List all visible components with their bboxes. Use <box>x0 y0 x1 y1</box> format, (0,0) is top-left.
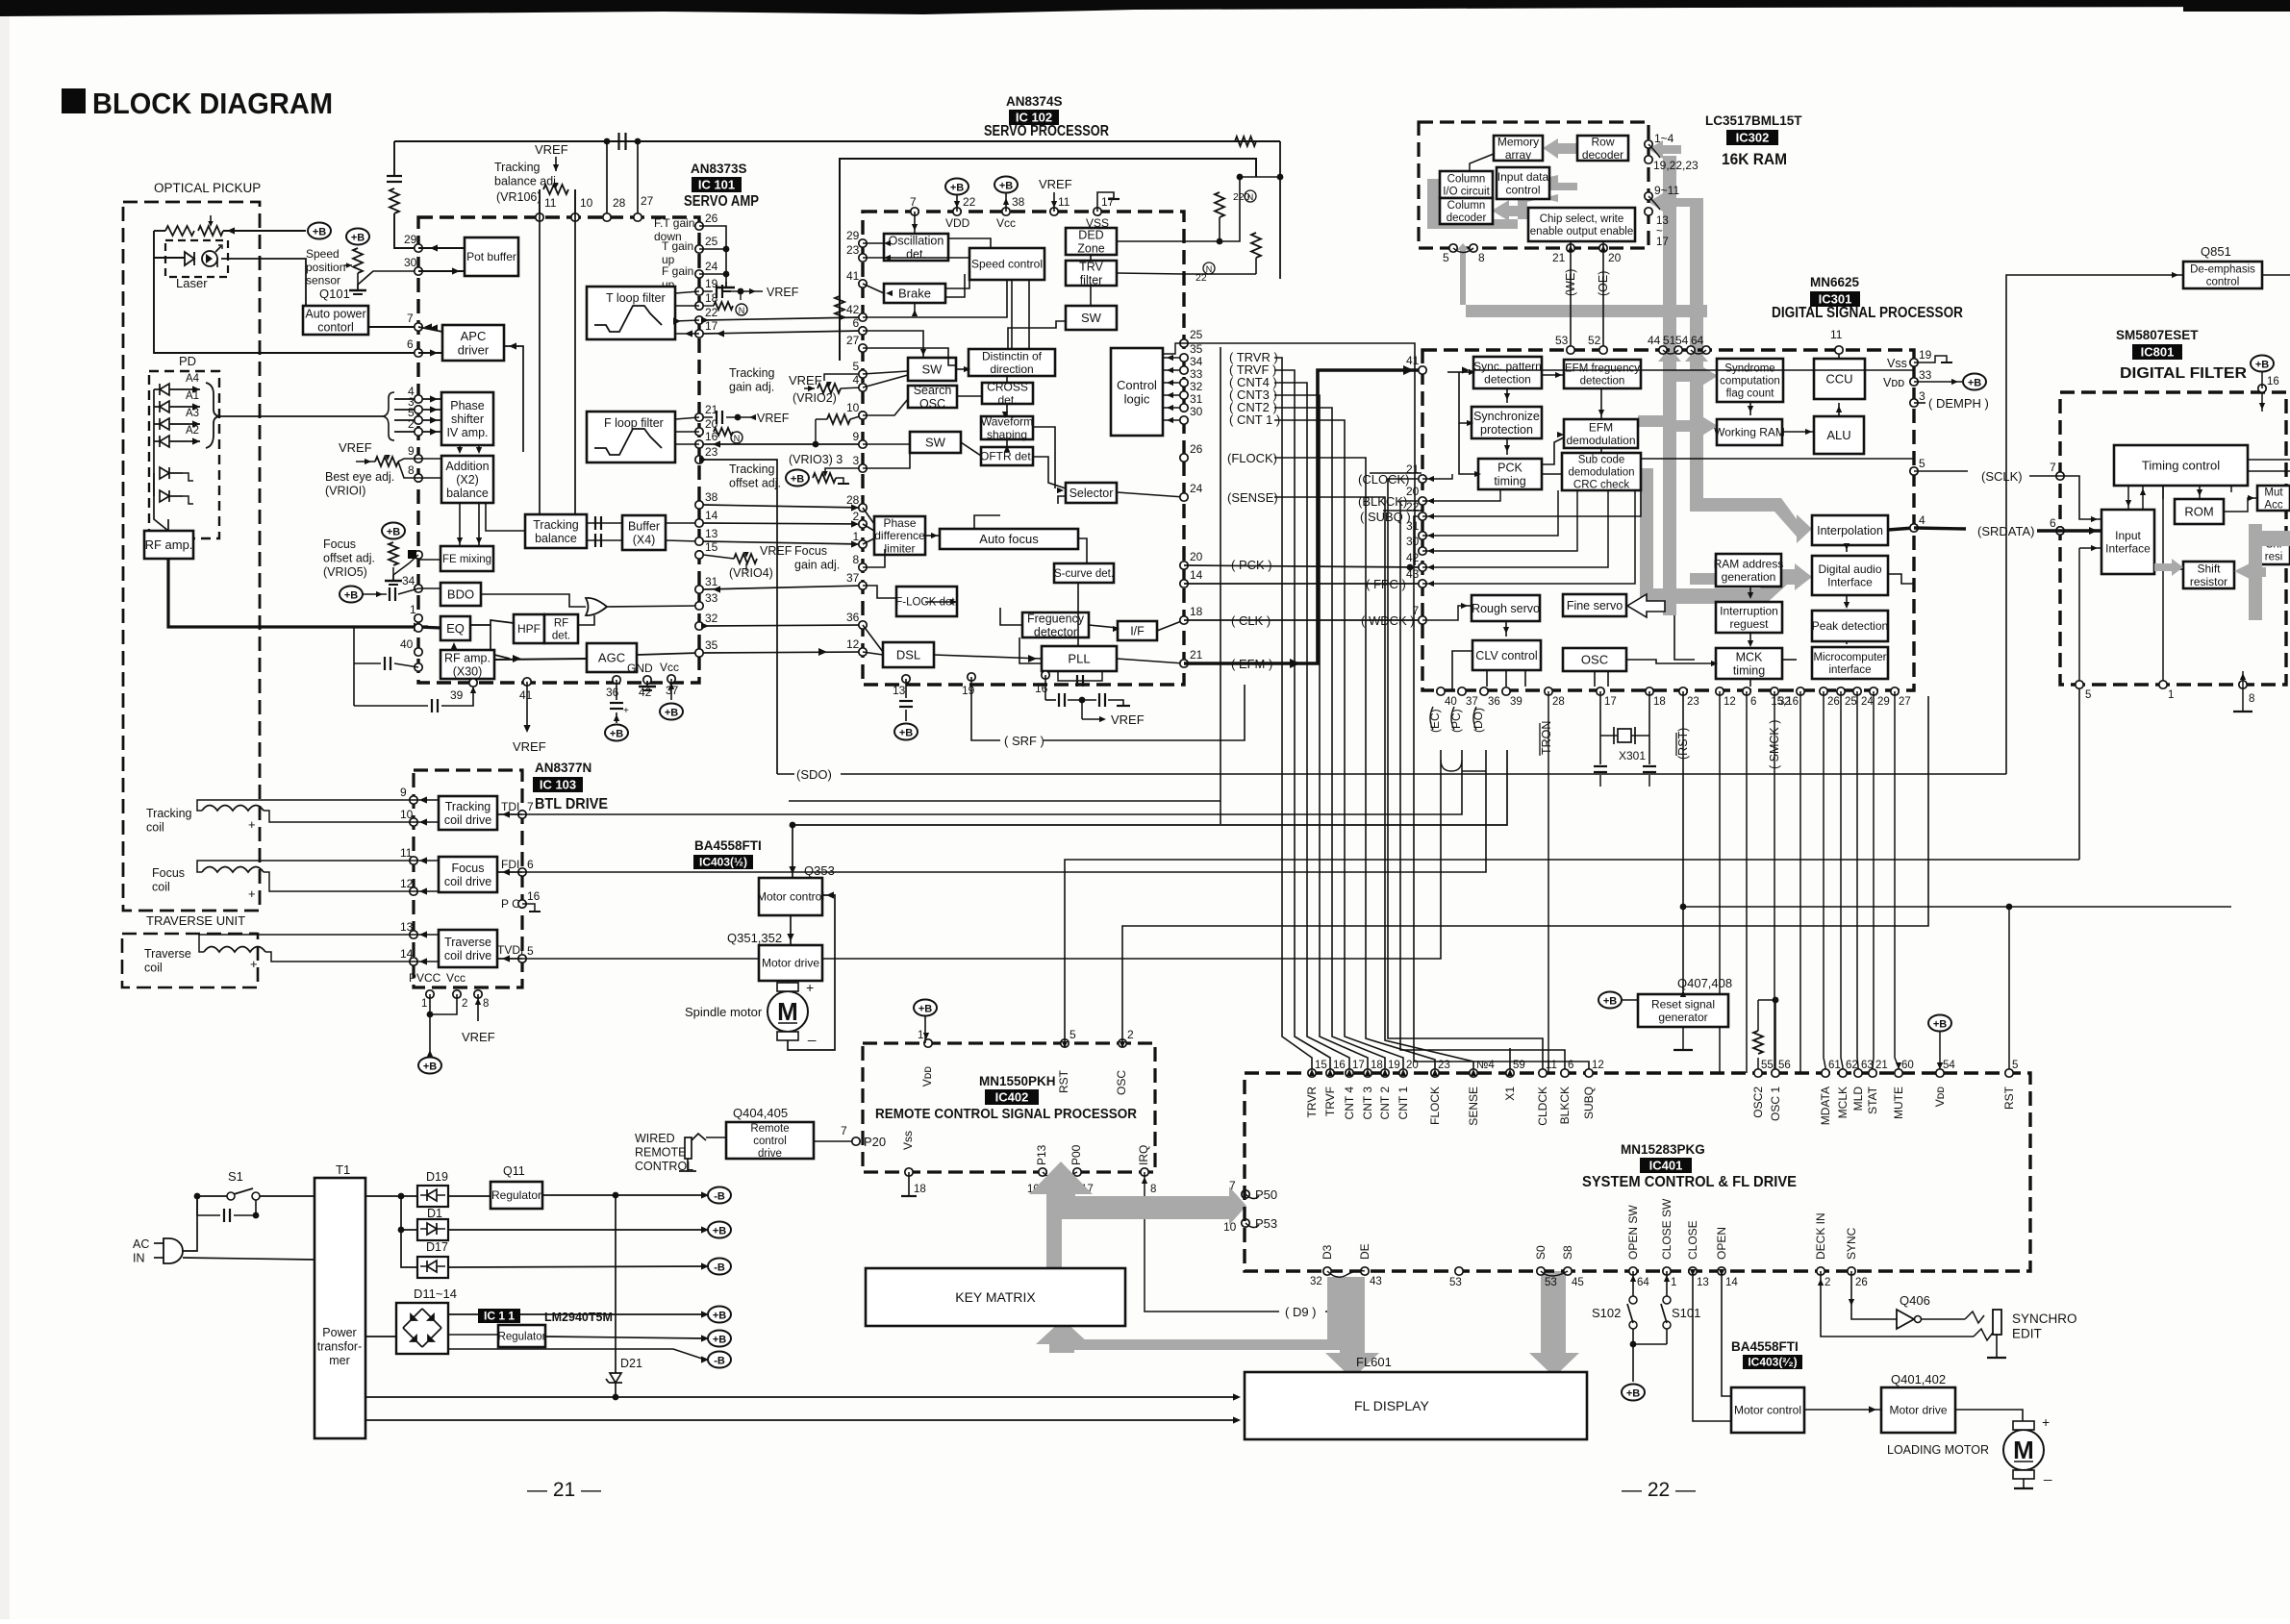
svg-text:22: 22 <box>705 306 718 319</box>
svg-text:PCK: PCK <box>1497 461 1522 474</box>
svg-text:VREF: VREF <box>535 142 568 157</box>
svg-text:SW: SW <box>925 436 946 450</box>
block sub code <box>1562 453 1641 490</box>
svg-text:12: 12 <box>1724 696 1736 708</box>
svg-text:Speed control: Speed control <box>971 258 1043 271</box>
svg-text:(SCLK): (SCLK) <box>1981 469 2023 484</box>
svg-text:7: 7 <box>1413 604 1420 617</box>
svg-text:Focus: Focus <box>451 862 484 875</box>
ram right pins <box>1645 140 1652 215</box>
ram wire dots <box>1217 174 1284 245</box>
svg-text:PD: PD <box>179 354 196 368</box>
svg-text:2: 2 <box>462 998 467 1010</box>
filter input3 v <box>2078 548 2080 685</box>
label focus gain adj <box>794 544 840 571</box>
wires near pins39 40 <box>1184 159 1280 274</box>
svg-text:60: 60 <box>1901 1060 1914 1071</box>
sclk wire2 <box>2029 475 2060 477</box>
svg-text:FDI: FDI <box>501 858 519 871</box>
svg-text:32: 32 <box>1310 1276 1322 1287</box>
-B out6 <box>708 1352 731 1368</box>
osc to x301 <box>1774 926 1776 1000</box>
svg-text:Laser: Laser <box>176 276 208 290</box>
svg-text:Remote: Remote <box>750 1123 789 1135</box>
addition to FE mixing <box>460 503 479 546</box>
gray mini arrow ii to shift <box>2154 559 2183 576</box>
svg-text:MN6625: MN6625 <box>1810 275 1860 289</box>
jack to rcd <box>706 1137 726 1138</box>
block control logic <box>1111 348 1163 436</box>
svg-text:1: 1 <box>1671 1277 1676 1288</box>
transformer text <box>317 1326 363 1367</box>
svg-text:MN15283PKG: MN15283PKG <box>1621 1142 1705 1157</box>
block IF <box>1118 621 1157 640</box>
gain pins tie <box>699 226 726 282</box>
svg-text:CLOSE SW: CLOSE SW <box>1660 1198 1673 1260</box>
pin40 wire <box>394 663 418 667</box>
svg-text:N: N <box>739 306 745 315</box>
svg-text:det.: det. <box>906 247 926 261</box>
svg-text:( SRF ): ( SRF ) <box>1004 734 1044 748</box>
svg-text:33: 33 <box>1190 367 1203 381</box>
svg-text:N: N <box>734 434 741 443</box>
svg-text:I/O circuit: I/O circuit <box>1443 186 1490 197</box>
svg-text:15: 15 <box>705 540 718 554</box>
gray branch to working RAM <box>1676 415 1718 437</box>
efm thick line <box>1184 370 1422 663</box>
svg-text:+B: +B <box>791 474 804 486</box>
pin P20 <box>852 1137 860 1145</box>
svg-text:+: + <box>248 887 256 901</box>
svg-text:Auto focus: Auto focus <box>979 532 1039 546</box>
gray bus syscontrol to FL <box>1529 1271 1579 1377</box>
block mck timing <box>1716 648 1782 679</box>
N circle 20 <box>731 432 742 443</box>
AC plug <box>164 1238 183 1263</box>
svg-text:11: 11 <box>544 196 557 210</box>
svg-text:Q406: Q406 <box>1900 1293 1930 1308</box>
cap39 up <box>353 663 355 706</box>
optical pickup unit outline <box>123 202 260 911</box>
block oscillation det <box>884 234 948 261</box>
svg-text:CNT 2: CNT 2 <box>1378 1087 1392 1120</box>
block Phase shifter <box>441 392 493 445</box>
svg-text:+B: +B <box>919 1004 932 1015</box>
res10 wire <box>850 415 863 419</box>
svg-text:Power: Power <box>322 1326 356 1339</box>
synchro jack squiggles <box>1965 1312 1993 1340</box>
svg-text:31: 31 <box>1406 519 1420 533</box>
svg-text:array: array <box>1505 148 1531 162</box>
res10 left <box>816 418 827 420</box>
svg-text:1: 1 <box>410 603 416 616</box>
arrows into FE <box>457 537 482 544</box>
svg-text:+B: +B <box>713 1311 726 1322</box>
svg-text:Brake: Brake <box>898 287 931 301</box>
block waveform <box>981 414 1033 440</box>
svg-text:flag count: flag count <box>1726 387 1775 399</box>
svg-text:IN: IN <box>133 1251 145 1264</box>
resetgen arrow <box>1680 990 1686 997</box>
spindle motor symbol <box>768 991 808 1032</box>
t coil minus wire <box>197 800 414 811</box>
svg-text:55: 55 <box>1761 1060 1774 1071</box>
svg-text:MCK: MCK <box>1736 650 1763 663</box>
svg-text:10: 10 <box>400 808 414 821</box>
svg-text:enable output enable: enable output enable <box>1530 226 1633 237</box>
rst vert 2089 <box>2008 907 2010 1073</box>
block efm freq <box>1564 360 1641 388</box>
gray branch EFM demod to bus A <box>1638 415 1663 427</box>
svg-text:+B: +B <box>610 729 623 740</box>
svg-text:12: 12 <box>400 877 414 890</box>
eq to hpf <box>470 620 514 625</box>
dsp left pin labels <box>1406 354 1420 617</box>
or gate <box>586 598 607 615</box>
vref41 wire <box>526 682 528 731</box>
mid long 833 <box>789 800 1220 802</box>
vref drop arrow <box>1051 201 1057 208</box>
ic402 osc up <box>1122 696 1928 1043</box>
svg-text:45: 45 <box>1572 1277 1584 1288</box>
svg-text:2: 2 <box>408 417 415 431</box>
cap branch2 <box>234 1200 256 1215</box>
svg-text:generation: generation <box>1722 570 1776 584</box>
svg-text:Interruption: Interruption <box>1720 604 1778 617</box>
pin25 long right <box>1184 343 1415 565</box>
svg-text:P50: P50 <box>1255 1187 1277 1202</box>
svg-text:CLOSE: CLOSE <box>1686 1220 1699 1260</box>
btl pwr wires <box>430 994 478 1053</box>
label speed position sensor <box>306 247 345 287</box>
pd bundle wire <box>219 415 383 417</box>
svg-text:S0: S0 <box>1534 1245 1548 1260</box>
block DED zone <box>1066 228 1117 255</box>
svg-text:Column: Column <box>1447 200 1486 212</box>
svg-text:30: 30 <box>1406 535 1420 548</box>
svg-text:29: 29 <box>404 233 417 246</box>
block distinctin <box>969 349 1055 376</box>
srdata wire <box>1914 528 1966 529</box>
label tracking gain adj <box>729 366 775 393</box>
block APC driver <box>442 325 504 361</box>
svg-text:RF amp.: RF amp. <box>145 537 193 552</box>
block shift resis right <box>2257 536 2290 564</box>
sync arrow <box>1849 1299 1854 1306</box>
svg-text:_: _ <box>247 787 256 801</box>
svg-text:Pot buffer: Pot buffer <box>466 250 516 263</box>
gray bus vertical B body <box>1690 199 1703 498</box>
svg-text:X1: X1 <box>1503 1087 1517 1101</box>
dsp to syscontrol verticals <box>1720 691 1899 1073</box>
cap bdo <box>389 587 390 601</box>
block Pot buffer <box>465 237 518 276</box>
svg-text:DED: DED <box>1078 228 1103 241</box>
svg-text:MN1550PKH: MN1550PKH <box>979 1074 1056 1088</box>
pin40 loop <box>353 627 355 663</box>
block column io <box>1440 171 1493 198</box>
svg-text:demodulation: demodulation <box>1568 467 1634 479</box>
svg-text:Sync. pattern: Sync. pattern <box>1473 360 1542 373</box>
svg-text:14: 14 <box>400 947 414 961</box>
svg-text:(SENSE): (SENSE) <box>1227 490 1278 505</box>
pwr drop arrows <box>954 198 1009 208</box>
block F loop filter <box>587 412 675 462</box>
pin30 to pot buffer <box>418 270 465 272</box>
svg-text:Focus: Focus <box>152 866 185 880</box>
vr103 to pin3 <box>825 468 863 471</box>
rst long right <box>1683 906 2231 908</box>
block Buffer X4 <box>622 515 666 550</box>
dsp top squiggles <box>1663 350 1706 354</box>
svg-text:_: _ <box>247 847 256 862</box>
block sync pattern <box>1473 357 1542 388</box>
svg-text:18: 18 <box>1190 605 1203 618</box>
+B speed sensor <box>346 229 369 245</box>
block T loop filter <box>587 287 675 339</box>
svg-text:Tracking: Tracking <box>729 366 775 380</box>
pin29 to pot buffer <box>418 247 465 249</box>
vdd401 arrow <box>1937 1062 1943 1069</box>
synchro edit jack <box>1993 1310 2001 1335</box>
we oe arrows <box>1568 245 1606 252</box>
svg-text:SW: SW <box>1081 311 1102 325</box>
arrow into pot buffer <box>452 267 460 274</box>
ic402 vdd wire <box>924 1016 926 1043</box>
block RF det <box>544 614 578 643</box>
pot VR105 <box>389 542 398 565</box>
svg-text:+B: +B <box>1968 378 1981 389</box>
pin25 wire left <box>1163 343 1184 354</box>
svg-text:26: 26 <box>705 212 718 225</box>
block input interface <box>2101 510 2154 574</box>
block rom <box>2175 499 2224 524</box>
svg-text:53: 53 <box>1545 1277 1557 1288</box>
wire laser to +B <box>223 230 306 232</box>
svg-text:29: 29 <box>1877 696 1890 708</box>
svg-text:TRON: TRON <box>1540 721 1553 755</box>
control logic to pins arrows <box>1163 355 1180 423</box>
svg-text:Chip select, write: Chip select, write <box>1540 213 1624 225</box>
block dai <box>1812 556 1888 595</box>
block phase diff <box>874 516 925 556</box>
svg-text:Column: Column <box>1447 174 1486 186</box>
svg-text:(SRDATA): (SRDATA) <box>1977 524 2034 538</box>
svg-text:Best eye adj.: Best eye adj. <box>325 470 394 484</box>
svg-text:+B: +B <box>344 590 358 602</box>
svg-text:TRVF: TRVF <box>1323 1087 1337 1116</box>
block working ram <box>1714 419 1785 445</box>
PD outline <box>149 371 219 538</box>
btl bottom pins <box>426 990 482 998</box>
vref41 arrow <box>523 725 530 733</box>
block motor control load <box>1731 1387 1804 1433</box>
svg-text:reguest: reguest <box>1729 617 1769 631</box>
svg-text:18: 18 <box>1653 696 1666 708</box>
fpc line <box>1184 583 1422 585</box>
tr coil minus wire <box>199 935 414 952</box>
svg-text:balance: balance <box>446 487 489 500</box>
svg-text:coil drive: coil drive <box>444 875 491 888</box>
svg-text:13: 13 <box>400 920 414 934</box>
res pin10 link <box>827 414 850 424</box>
diode D19 box <box>417 1186 448 1207</box>
pwr arrow1 <box>701 1191 709 1198</box>
FL wire arrows <box>1233 1393 1241 1423</box>
bridge out top <box>448 1313 705 1315</box>
svg-text:25: 25 <box>1845 696 1857 708</box>
svg-text:MLD: MLD <box>1851 1087 1865 1112</box>
svg-text:41: 41 <box>1406 354 1420 367</box>
ic102 internal arrows <box>884 240 1120 662</box>
svg-text:44: 44 <box>1648 334 1661 347</box>
btl drive long lines <box>522 750 1486 959</box>
switch S1 <box>227 1192 235 1200</box>
svg-text:PVCC: PVCC <box>409 971 441 985</box>
f coil minus wire <box>197 861 414 872</box>
svg-text:Buffer: Buffer <box>628 519 660 533</box>
pin7 drop <box>914 212 916 234</box>
block motor drive load <box>1881 1387 1955 1433</box>
svg-text:11: 11 <box>1830 328 1843 341</box>
svg-text:14: 14 <box>705 509 718 522</box>
svg-text:22: 22 <box>963 195 976 209</box>
svg-text:(X30): (X30) <box>453 664 483 678</box>
svg-text:33: 33 <box>705 591 718 605</box>
-B out3 <box>708 1259 731 1275</box>
block EQ <box>440 616 470 640</box>
IC302 chip label <box>1726 130 1778 145</box>
agc to pin35 <box>637 653 699 655</box>
page top black border <box>0 0 2290 16</box>
IC101 bottom pins <box>469 675 675 687</box>
block motor drive spindle <box>759 945 822 981</box>
block syndrome <box>1717 359 1783 402</box>
svg-text:CLDCK: CLDCK <box>1536 1087 1549 1126</box>
ic401 top pin names rotated <box>1305 1086 2016 1125</box>
svg-text:BLOCK DIAGRAM: BLOCK DIAGRAM <box>92 87 333 120</box>
btl in arrows <box>502 811 510 962</box>
pin16 caps <box>1044 675 1046 700</box>
resetgen gnd sym <box>1673 1049 1693 1051</box>
arrow into apc <box>430 349 438 356</box>
filter input3 arrow <box>2091 545 2098 551</box>
label tracking coil <box>146 807 192 834</box>
left drop to pin29 <box>394 213 418 248</box>
btl pwr dot <box>427 1012 434 1018</box>
block rough servo <box>1472 595 1540 621</box>
svg-text:54: 54 <box>1943 1060 1955 1071</box>
svg-text:21: 21 <box>1552 251 1566 264</box>
apc right in <box>504 346 523 452</box>
svg-text:2: 2 <box>1127 1028 1134 1041</box>
N circ a <box>1245 190 1256 202</box>
svg-text:+B: +B <box>313 227 326 238</box>
svg-text:40: 40 <box>1445 696 1457 708</box>
svg-text:control: control <box>2206 276 2240 287</box>
svg-text:A4: A4 <box>186 373 200 385</box>
svg-text:VREF: VREF <box>462 1030 495 1044</box>
IC101 right pins <box>695 222 703 657</box>
svg-text:SYNCHRO: SYNCHRO <box>2012 1312 2077 1326</box>
svg-text:28: 28 <box>846 493 860 507</box>
ic402 pin names vertical <box>920 1066 1128 1095</box>
svg-text:38: 38 <box>1012 195 1025 209</box>
svg-text:REMOTE: REMOTE <box>635 1145 686 1159</box>
svg-text:51: 51 <box>1663 334 1676 347</box>
vr103 gnd <box>836 478 843 484</box>
svg-text:21: 21 <box>1875 1060 1888 1071</box>
svg-text:Waveform: Waveform <box>981 414 1033 428</box>
svg-text:D11~14: D11~14 <box>414 1287 457 1301</box>
16K RAM IC302 outline <box>1419 122 1648 248</box>
gray arrow mem to row <box>1543 138 1578 159</box>
svg-text:( PCK ): ( PCK ) <box>1231 558 1272 572</box>
svg-text:balance adj.: balance adj. <box>494 174 559 187</box>
svg-text:FE mixing: FE mixing <box>442 554 491 565</box>
block power transformer <box>315 1178 365 1438</box>
traverse coil <box>204 947 265 953</box>
servo processor outer frame <box>840 159 1256 361</box>
svg-text:Regulator: Regulator <box>491 1188 541 1202</box>
gray bus keymatrix up to IC402 <box>1029 1162 1246 1268</box>
IC101 left pins <box>415 244 422 671</box>
block BDO <box>440 583 481 606</box>
svg-text:VDD: VDD <box>945 216 970 230</box>
svg-text:DECK IN: DECK IN <box>1814 1212 1827 1260</box>
plug lower wire <box>183 1258 315 1260</box>
srdata wire2 <box>2037 529 2060 532</box>
svg-text:Working RAM: Working RAM <box>1714 426 1785 439</box>
IC403b chip label <box>1743 1355 1802 1369</box>
plug to sw <box>183 1196 197 1251</box>
svg-text:OPTICAL PICKUP: OPTICAL PICKUP <box>154 181 261 195</box>
svg-text:detection: detection <box>1484 372 1531 386</box>
svg-text:D21: D21 <box>620 1357 642 1370</box>
svg-text:Mut: Mut <box>2264 487 2283 499</box>
svg-text:CNT 1: CNT 1 <box>1397 1087 1410 1120</box>
svg-text:coil drive: coil drive <box>444 813 491 827</box>
speed pot ground <box>357 285 359 290</box>
svg-text:Interface: Interface <box>2105 541 2151 555</box>
svg-text:28: 28 <box>613 196 626 210</box>
svg-text:Digital audio: Digital audio <box>1818 562 1881 576</box>
filter b wire <box>2261 372 2263 388</box>
label focus coil <box>152 866 185 893</box>
vert 1332b <box>1279 279 1281 358</box>
svg-text:_: _ <box>249 919 258 934</box>
svg-text:SERVO AMP: SERVO AMP <box>684 193 759 210</box>
IC101 right pin labels <box>705 212 718 652</box>
btl pwr arrows <box>427 998 481 1057</box>
svg-text:12: 12 <box>1592 1060 1604 1071</box>
svg-text:+B: +B <box>665 708 678 719</box>
wire RF amp to EQ pin <box>418 627 440 628</box>
vref stub <box>555 157 557 171</box>
svg-text:BA4558FTI: BA4558FTI <box>694 838 762 853</box>
svg-text:18: 18 <box>1371 1060 1383 1071</box>
arrow into pin7 <box>424 323 432 330</box>
ic102 internal wires <box>863 238 1184 663</box>
block efm demod <box>1564 419 1638 448</box>
block chip select <box>1528 208 1635 241</box>
svg-text:+: + <box>806 980 814 995</box>
svg-text:Vᴅᴅ: Vᴅᴅ <box>1933 1087 1947 1108</box>
block input data control <box>1497 167 1549 199</box>
svg-text:RF amp.: RF amp. <box>444 651 491 664</box>
PD diode group A4 A1 A3 A2 <box>154 373 200 447</box>
svg-text:Regulator: Regulator <box>498 1332 546 1343</box>
